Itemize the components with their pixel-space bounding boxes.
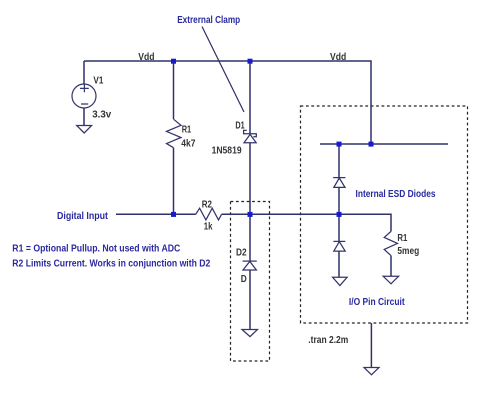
svg-text:D1: D1 bbox=[235, 121, 245, 132]
svg-text:Extrernal Clamp: Extrernal Clamp bbox=[177, 15, 240, 26]
svg-text:3.3v: 3.3v bbox=[92, 109, 111, 120]
svg-text:R1: R1 bbox=[182, 124, 192, 135]
svg-text:R1 = Optional Pullup. Not use: R1 = Optional Pullup. Not used with ADC bbox=[12, 243, 180, 254]
svg-text:.tran 2.2m: .tran 2.2m bbox=[308, 335, 348, 346]
svg-text:1N5819: 1N5819 bbox=[212, 145, 242, 156]
svg-text:I/O Pin Circuit: I/O Pin Circuit bbox=[349, 297, 405, 308]
svg-text:4k7: 4k7 bbox=[181, 139, 196, 150]
svg-text:Digital Input: Digital Input bbox=[57, 211, 109, 222]
svg-text:R1: R1 bbox=[397, 233, 407, 244]
svg-text:1k: 1k bbox=[204, 222, 213, 233]
svg-text:R2: R2 bbox=[202, 200, 213, 211]
svg-text:Vdd: Vdd bbox=[138, 52, 154, 63]
svg-text:R2 Limits Current. Works in c: R2 Limits Current. Works in conjunction … bbox=[12, 258, 210, 269]
svg-text:5meg: 5meg bbox=[397, 246, 419, 257]
svg-text:D: D bbox=[241, 274, 247, 285]
svg-text:Vdd: Vdd bbox=[330, 52, 346, 63]
svg-text:D2: D2 bbox=[236, 248, 247, 259]
svg-text:Internal ESD Diodes: Internal ESD Diodes bbox=[356, 189, 436, 200]
svg-text:V1: V1 bbox=[93, 75, 103, 86]
